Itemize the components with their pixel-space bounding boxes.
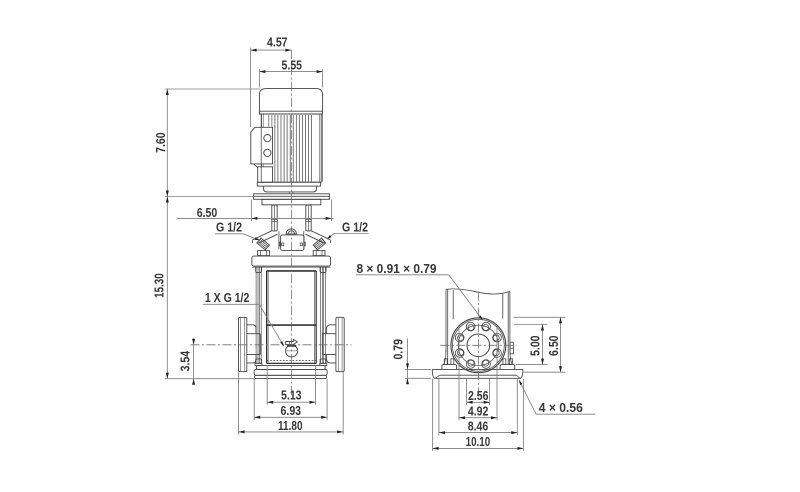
svg-text:4.57: 4.57: [267, 34, 288, 49]
svg-text:15.30: 15.30: [152, 273, 167, 298]
svg-text:6.50: 6.50: [197, 205, 218, 220]
svg-text:5.13: 5.13: [281, 388, 302, 403]
svg-text:4 × 0.56: 4 × 0.56: [539, 400, 583, 415]
svg-text:4.92: 4.92: [468, 404, 489, 419]
svg-text:0.79: 0.79: [391, 339, 406, 360]
svg-text:5.55: 5.55: [282, 57, 303, 72]
svg-text:8.46: 8.46: [468, 419, 489, 434]
svg-text:G 1/2: G 1/2: [216, 220, 242, 235]
svg-text:2.56: 2.56: [468, 388, 489, 403]
svg-text:G 1/2: G 1/2: [342, 220, 368, 235]
svg-text:5.00: 5.00: [527, 335, 542, 356]
svg-text:1 X G 1/2: 1 X G 1/2: [205, 290, 250, 305]
svg-text:7.60: 7.60: [153, 132, 168, 153]
svg-text:3.54: 3.54: [177, 350, 192, 371]
svg-text:6.50: 6.50: [546, 335, 561, 356]
svg-text:8 × 0.91 × 0.79: 8 × 0.91 × 0.79: [357, 261, 437, 276]
svg-text:11.80: 11.80: [278, 418, 303, 433]
svg-text:6.93: 6.93: [281, 403, 302, 418]
svg-text:10.10: 10.10: [466, 434, 491, 449]
